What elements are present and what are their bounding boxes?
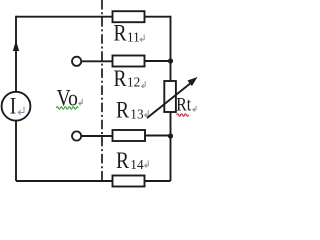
svg-text:R: R bbox=[116, 148, 130, 174]
svg-text:13: 13 bbox=[130, 106, 143, 121]
svg-text:11: 11 bbox=[127, 29, 140, 44]
svg-text:R: R bbox=[114, 65, 128, 91]
svg-text:14: 14 bbox=[130, 157, 143, 172]
svg-text:R: R bbox=[114, 20, 128, 46]
svg-text:I: I bbox=[10, 93, 17, 119]
svg-text:R: R bbox=[116, 97, 130, 123]
svg-text:Vo: Vo bbox=[57, 85, 78, 111]
svg-text:Rt: Rt bbox=[176, 94, 191, 114]
svg-text:12: 12 bbox=[127, 74, 140, 89]
